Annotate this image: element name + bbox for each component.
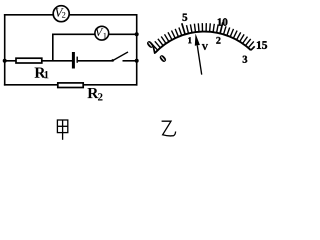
meter inner label 1 — [188, 37, 191, 43]
wire battery row left segment — [5, 60, 72, 62]
node junction right top — [135, 32, 139, 36]
wire switch to right node segment — [123, 60, 137, 62]
label yi — [162, 121, 176, 136]
label jia — [57, 120, 67, 140]
meter unit label V — [202, 44, 208, 50]
resistor R1 — [16, 58, 42, 63]
meter inner label 3 — [243, 56, 248, 63]
meter scale arc — [155, 32, 251, 53]
node junction right bottom — [135, 59, 139, 63]
meter tick marks — [152, 22, 255, 54]
meter inner label 2 — [216, 37, 220, 44]
wire right side of loop — [136, 14, 138, 86]
node junction on left wire — [3, 59, 7, 63]
switch — [111, 52, 128, 62]
battery cell — [72, 52, 78, 69]
meter outer label 10 — [218, 18, 228, 25]
wire left side of loop — [4, 14, 6, 86]
label R2 — [87, 88, 102, 101]
wire V1 branch horizontal — [52, 33, 137, 35]
wire battery to switch segment — [78, 60, 112, 62]
voltmeter V2 — [53, 6, 69, 22]
meter inner label 0 — [160, 55, 166, 61]
wire V1 branch vertical — [52, 34, 54, 61]
meter outer label 15 — [257, 41, 267, 49]
meter outer label 5 — [183, 14, 188, 21]
label R1 — [35, 68, 49, 79]
voltmeter V1 — [95, 26, 109, 40]
wire bottom side of loop — [4, 84, 138, 86]
wire top side of loop — [4, 14, 138, 16]
resistor R2 — [58, 83, 83, 88]
meter needle — [195, 34, 202, 75]
meter outer label 0 — [147, 41, 153, 47]
